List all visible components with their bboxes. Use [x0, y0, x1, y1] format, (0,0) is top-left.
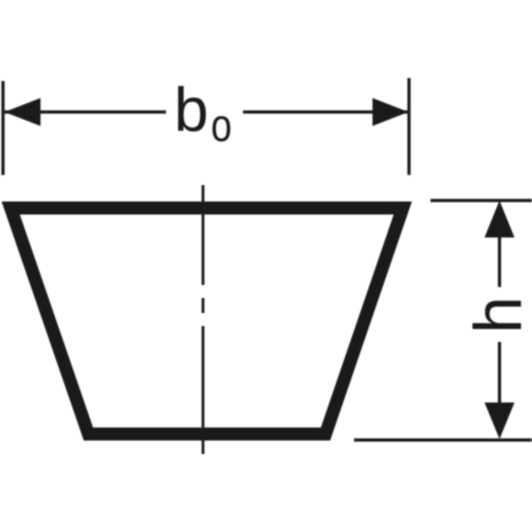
svg-text:o: o [211, 99, 232, 150]
svg-text:h: h [461, 296, 532, 333]
svg-text:b: b [174, 76, 208, 145]
